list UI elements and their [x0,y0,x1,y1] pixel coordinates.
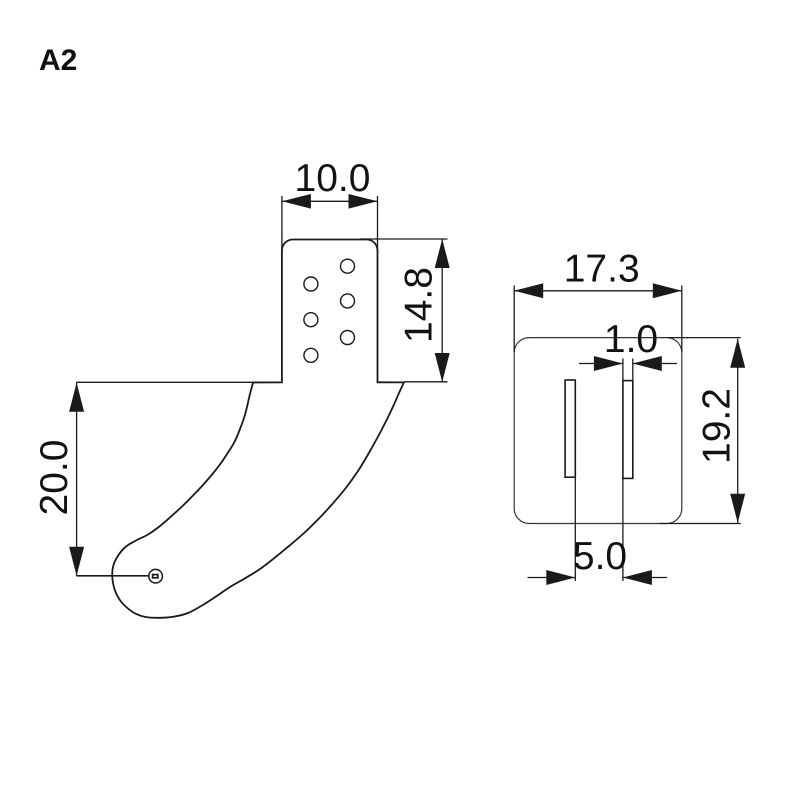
tab hole bottom-left [304,348,318,362]
tab hole bottom-right [341,331,355,345]
left slot [565,380,575,477]
tab hole mid-right [341,294,355,308]
base plate top view outline [514,338,682,524]
svg-text:10.0: 10.0 [295,157,371,200]
tab hole top-left [304,277,318,291]
svg-text:A2: A2 [39,44,77,77]
center slot [623,381,633,479]
svg-text:14.8: 14.8 [398,267,441,343]
svg-text:1.0: 1.0 [604,318,658,361]
svg-text:19.2: 19.2 [696,388,739,464]
dimension 5.0 [528,477,668,585]
dimension 1.0 [579,356,677,381]
tab hole mid-left [304,313,318,327]
svg-text:5.0: 5.0 [573,535,627,578]
svg-text:20.0: 20.0 [33,440,76,516]
dimension 20.0 [69,382,282,576]
tab hole top-right [341,259,355,273]
dimension 19.2 [660,338,745,524]
tip pivot hole [149,569,163,583]
control horn side-view outline [112,240,404,618]
dimension 14.8 [360,239,450,382]
dimension 17.3 [514,283,682,352]
dimension 10.0 [282,194,378,252]
tip pivot square [153,575,158,578]
svg-text:17.3: 17.3 [564,248,640,291]
